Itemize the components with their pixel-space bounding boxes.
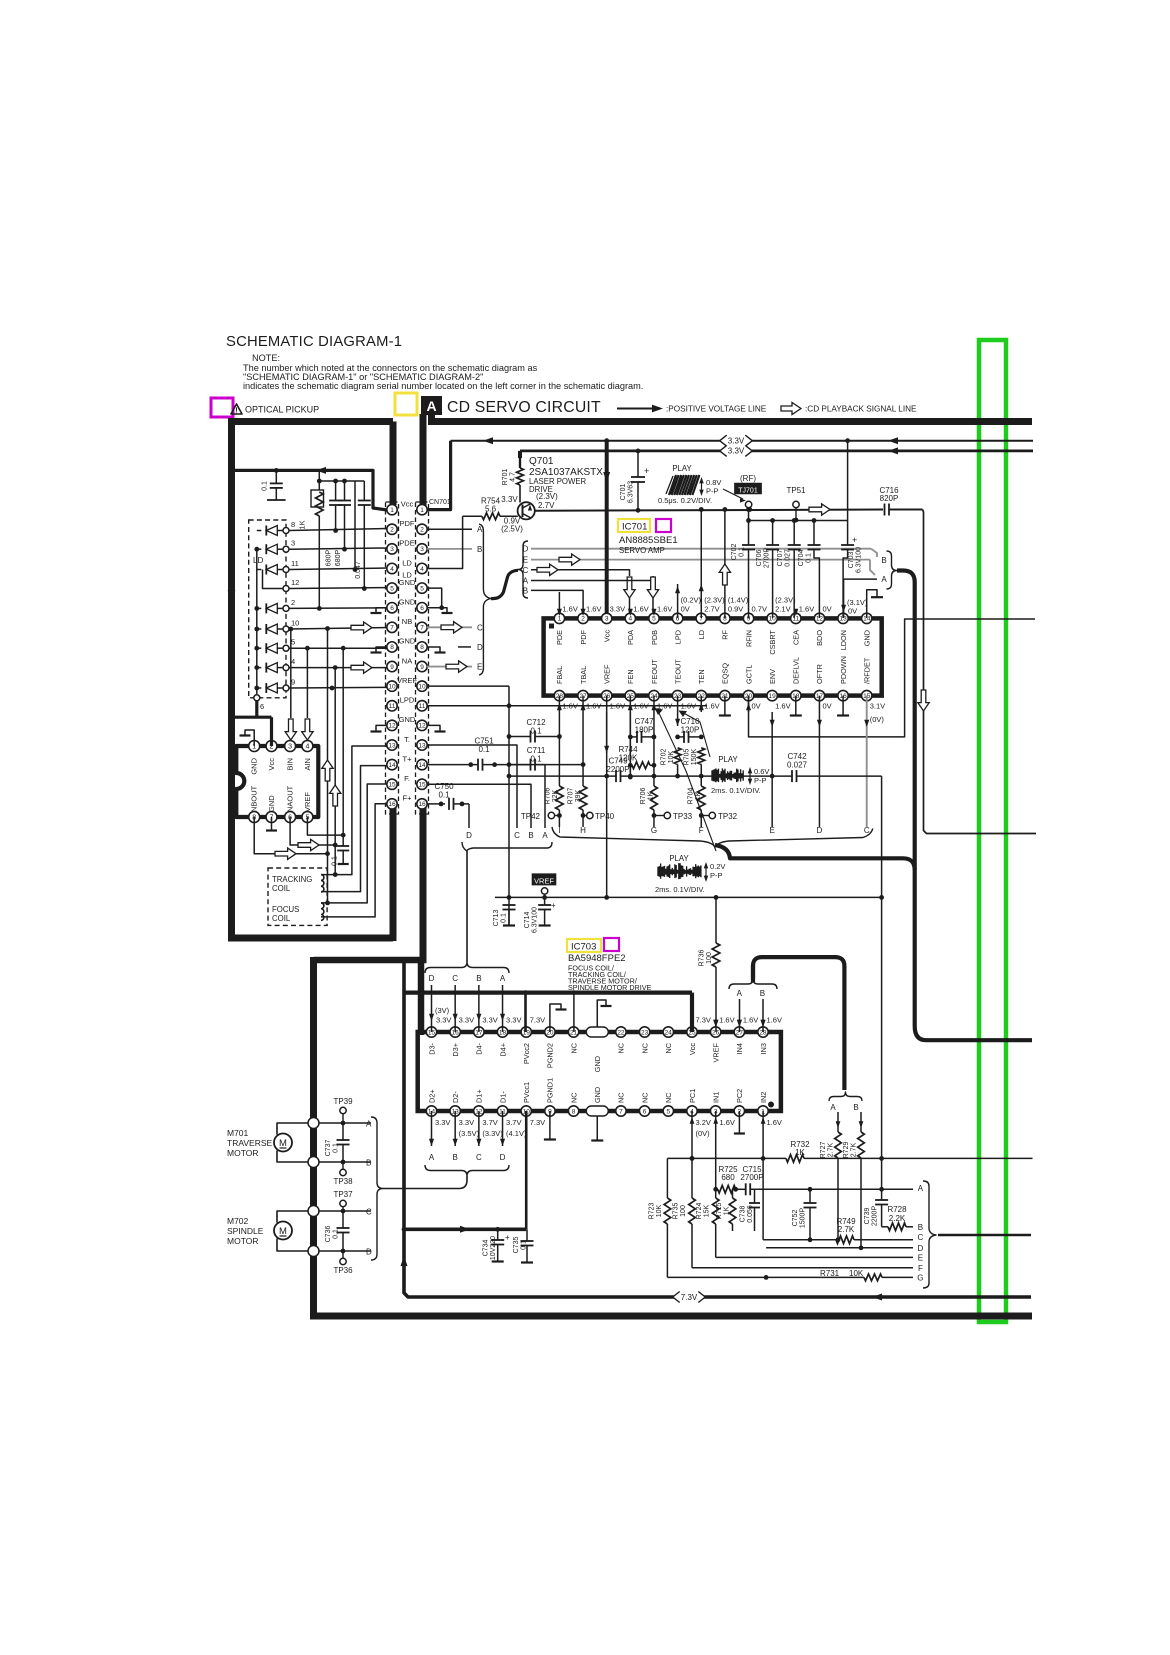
svg-text:M: M: [279, 1226, 287, 1237]
svg-text:1.6V: 1.6V: [633, 702, 648, 711]
svg-text:680P: 680P: [326, 550, 333, 567]
photodiode row 8: [257, 530, 262, 532]
svg-text:4.7: 4.7: [510, 472, 517, 482]
CN701 pin 15 right: [417, 779, 427, 789]
svg-text:3.3V: 3.3V: [436, 1016, 451, 1025]
wire pin3R to B gray: [427, 548, 472, 550]
svg-text:B: B: [476, 974, 481, 983]
photodiode anode bus: [256, 549, 258, 694]
CN701 pin 5 left: [387, 583, 397, 593]
svg-text:2200P: 2200P: [606, 765, 629, 774]
photodiode row 10: [257, 628, 262, 630]
svg-text:0.1: 0.1: [530, 755, 542, 764]
svg-text:(3.5V): (3.5V): [459, 1129, 480, 1138]
arrow into pin 20: [746, 703, 751, 710]
hollow arrow NA riser: [330, 785, 341, 806]
VREF wire pin26: [606, 712, 608, 897]
svg-text:A: A: [881, 575, 887, 584]
svg-text:3.3V: 3.3V: [482, 1016, 497, 1025]
IC703 pin 14: [426, 1106, 436, 1116]
IC701 pin 13: [838, 613, 848, 623]
svg-text:8: 8: [291, 520, 295, 529]
IC701 pin 8: [720, 613, 730, 623]
CN701 pin 16 left: [387, 799, 397, 809]
svg-text:15: 15: [388, 782, 396, 789]
M701 traverse motor: [274, 1134, 292, 1152]
svg-text:RF: RF: [721, 629, 730, 639]
svg-text:3.7V: 3.7V: [506, 1118, 521, 1127]
svg-text:5: 5: [390, 585, 394, 592]
CN701 pin 12 right: [417, 720, 427, 730]
GCTL wire pin20: [749, 619, 1035, 737]
gnd preamp pin7: [271, 817, 273, 830]
IC701 pin 2: [578, 613, 588, 623]
CN701 pin 9 left: [387, 661, 397, 671]
svg-text:B: B: [528, 831, 533, 840]
photodiode row 3: [257, 548, 262, 550]
IC703 pin1 mark: [768, 1102, 774, 1108]
3.3V tag upper: [720, 435, 753, 446]
wire F+ pin16: [321, 804, 387, 917]
IC701 pin 10: [767, 613, 777, 623]
IC703 pin 2: [734, 1106, 744, 1116]
capacitor C703: [847, 441, 849, 545]
IC701 pin 24: [649, 690, 659, 700]
wire E gray: [531, 559, 870, 561]
arrow on vcc wire: [316, 467, 326, 474]
svg-text:R728: R728: [887, 1205, 907, 1214]
svg-text:6.3V100: 6.3V100: [532, 907, 539, 933]
svg-text:R702: R702: [661, 749, 668, 766]
IC703 pin 3: [710, 1106, 720, 1116]
svg-text:indicates the schematic diagra: indicates the schematic diagram serial n…: [243, 381, 643, 391]
CN701 pin 16 right: [417, 799, 427, 809]
pad 11: [283, 567, 289, 573]
svg-text:C737: C737: [325, 1140, 332, 1157]
svg-text:2ms. 0.1V/DIV.: 2ms. 0.1V/DIV.: [711, 786, 761, 795]
OFTR wire pin17: [818, 696, 820, 827]
svg-text:PDE: PDE: [399, 539, 414, 548]
capacitor 0.1 vref: [337, 845, 349, 847]
wire to BIN: [290, 629, 292, 718]
arrow into pin 4: [628, 609, 633, 616]
svg-text:P-P: P-P: [710, 871, 723, 880]
hollow arrow down RF: [918, 690, 929, 711]
svg-text:D4+: D4+: [498, 1043, 507, 1057]
svg-text:D: D: [466, 831, 472, 840]
svg-text:F: F: [918, 1264, 923, 1273]
svg-text:AIN: AIN: [303, 758, 312, 771]
A section box: [421, 396, 442, 415]
R723: [666, 1158, 668, 1198]
R735: [689, 1198, 696, 1224]
gnd pin12R: [427, 725, 440, 731]
svg-text:6: 6: [643, 1108, 647, 1115]
svg-text:3: 3: [288, 743, 292, 750]
wire A row: [319, 1122, 371, 1124]
preamp IC body: [236, 746, 318, 817]
svg-text:A: A: [542, 831, 548, 840]
svg-text:0.1: 0.1: [806, 553, 813, 563]
svg-text:14: 14: [388, 762, 396, 769]
hollow arrow E cn: [446, 661, 467, 672]
CN701 pin 11 left: [387, 701, 397, 711]
svg-text:1.6V: 1.6V: [767, 1016, 782, 1025]
svg-text:680P: 680P: [335, 550, 342, 567]
capacitor C704: [813, 521, 815, 546]
svg-text:2.7V: 2.7V: [704, 605, 719, 614]
svg-text:D1+: D1+: [475, 1089, 484, 1103]
svg-text:0.2V: 0.2V: [710, 862, 725, 871]
arrow into pin 1: [557, 609, 562, 616]
CN701 pin 10 left: [387, 681, 397, 691]
svg-text:BDO: BDO: [815, 630, 824, 646]
arrow down vcc: [603, 472, 610, 482]
TBAL wire: [582, 712, 584, 786]
CN701 dashed outline left: [386, 502, 399, 814]
svg-text:SPINDLE: SPINDLE: [227, 1226, 264, 1236]
R715: [732, 1189, 734, 1198]
IC701 body: [544, 618, 882, 695]
wire D row: [319, 1250, 371, 1252]
CN701 pin 3 right: [417, 544, 427, 554]
tracking coil: [321, 875, 324, 892]
svg-text:1K: 1K: [298, 520, 307, 529]
svg-text:TP37: TP37: [333, 1190, 353, 1199]
IC701 pin 19: [767, 690, 777, 700]
pad 9: [283, 685, 289, 691]
svg-text:COIL: COIL: [272, 914, 291, 923]
arrow into pin 2: [581, 609, 586, 616]
pad 5: [283, 645, 289, 651]
svg-text:3.3V: 3.3V: [728, 447, 745, 456]
wire row12 to pin5: [289, 587, 387, 590]
arrow to pin 18: [502, 985, 504, 1032]
arrow up 404: [401, 1256, 408, 1266]
svg-text:8: 8: [572, 1108, 576, 1115]
svg-text:IC703: IC703: [571, 942, 596, 953]
svg-text:5: 5: [291, 638, 295, 647]
svg-text:C: C: [452, 974, 458, 983]
svg-text:6: 6: [390, 605, 394, 612]
capacitor 0.047: [363, 481, 365, 501]
IC701 pin 20: [743, 690, 753, 700]
photodiode row 5: [257, 647, 262, 649]
arrow to pin 16: [454, 985, 456, 1032]
svg-text:A: A: [500, 974, 506, 983]
LD wire pin7: [700, 510, 702, 619]
svg-text:PGND1: PGND1: [546, 1078, 555, 1103]
A line: [716, 1188, 718, 1190]
svg-text:R707: R707: [568, 788, 575, 805]
svg-text:0.1: 0.1: [530, 727, 542, 736]
svg-text:10K: 10K: [668, 750, 675, 763]
vcc wire inside pickup: [232, 470, 388, 510]
TJ701 black label: [734, 483, 762, 495]
7.3V tag: [673, 1292, 706, 1303]
svg-text:(4.1V): (4.1V): [506, 1129, 527, 1138]
svg-text:1.6V: 1.6V: [799, 605, 814, 614]
svg-text:C: C: [918, 1233, 924, 1242]
C747 line: [630, 736, 637, 738]
svg-text:(2.3V): (2.3V): [704, 596, 725, 605]
capacitor 680P a: [333, 479, 338, 484]
wire B to IC701 pin2: [531, 590, 583, 618]
C line: [763, 1239, 836, 1241]
IC701 pin 25: [625, 690, 635, 700]
svg-text:0.1: 0.1: [501, 913, 508, 923]
IC701 pin 23: [672, 690, 682, 700]
svg-text:1.6V: 1.6V: [586, 702, 601, 711]
PVcc1 wire: [525, 1111, 528, 1229]
svg-text:11: 11: [419, 703, 426, 710]
wire row2 to pin6: [289, 607, 387, 610]
IN2 wire: [762, 1111, 764, 1240]
svg-text:1.6V: 1.6V: [681, 702, 696, 711]
IC703 GND oval top: [586, 1027, 608, 1037]
svg-text:2: 2: [420, 527, 424, 534]
resistor 1K pickup: [318, 470, 320, 490]
svg-text:C: C: [514, 831, 520, 840]
svg-text:AN8885SBE1: AN8885SBE1: [619, 535, 678, 546]
svg-text:B: B: [881, 556, 886, 565]
svg-text:C738: C738: [740, 1206, 747, 1223]
cap riser row5: [342, 648, 344, 846]
B arrow pin28: [762, 999, 764, 1032]
IC703 pin 19: [521, 1027, 531, 1037]
svg-text:NC: NC: [664, 1043, 673, 1054]
gnd IC701 pin 16: [842, 696, 844, 715]
svg-text:0.1: 0.1: [333, 1229, 340, 1239]
svg-text:OPTICAL PICKUP: OPTICAL PICKUP: [245, 405, 319, 415]
TP33: [654, 815, 664, 817]
hollow arrow rail: [809, 504, 830, 515]
svg-text:23: 23: [641, 1029, 649, 1036]
noise waveform 0.6V: [712, 768, 743, 782]
wire pin12 down: [478, 1111, 480, 1146]
gnd PGND1: [549, 1111, 551, 1139]
letter D cn: [458, 646, 471, 648]
photodiode row 4: [257, 667, 262, 669]
gnd pin8R: [427, 647, 440, 652]
hollow arrow C cn: [441, 622, 462, 633]
svg-text:PDF: PDF: [400, 519, 415, 528]
hollow arrow NB: [351, 622, 372, 633]
IC703 pin 10: [521, 1106, 531, 1116]
TJ701 test point: [745, 501, 751, 507]
svg-text:15K: 15K: [703, 1204, 710, 1217]
svg-text:PVcc2: PVcc2: [522, 1043, 531, 1064]
arrow left upper 3.3V: [888, 437, 898, 444]
svg-text:1K: 1K: [723, 1206, 730, 1215]
svg-text:3.3V: 3.3V: [728, 437, 745, 446]
gnd IC701 pin 18: [795, 696, 797, 715]
IC701 pin 16: [838, 690, 848, 700]
svg-text:TP33: TP33: [673, 812, 693, 821]
IC703 pin 7: [616, 1106, 626, 1116]
svg-text:100: 100: [680, 1205, 687, 1217]
D line: [766, 1247, 913, 1249]
svg-text:1.6V: 1.6V: [767, 1118, 782, 1127]
legend positive voltage line: [617, 408, 655, 410]
VREF black label: [532, 873, 557, 885]
svg-text:TP32: TP32: [718, 812, 738, 821]
svg-text:DEFLVL: DEFLVL: [792, 657, 801, 684]
RFDET wire pin15: [866, 696, 868, 827]
wire top caps: [319, 480, 364, 482]
brace right bundle: [923, 1181, 936, 1288]
ABCD under brace: [425, 1165, 509, 1176]
svg-text:CSBRT: CSBRT: [768, 629, 777, 654]
svg-text:+: +: [505, 1233, 510, 1242]
pad 6 bottom: [254, 695, 260, 701]
R707 39K: [579, 786, 587, 810]
svg-text:4: 4: [629, 616, 633, 623]
R736: [715, 897, 717, 943]
svg-text:C714: C714: [524, 912, 531, 929]
svg-text:C701: C701: [620, 484, 627, 501]
svg-text:D2-: D2-: [451, 1091, 460, 1103]
svg-text:(3V): (3V): [435, 1006, 450, 1015]
svg-text:FBAL: FBAL: [555, 666, 564, 684]
R704 1K: [697, 786, 705, 810]
svg-text:12: 12: [388, 723, 396, 730]
svg-text:3.3V: 3.3V: [459, 1118, 474, 1127]
arrow to pin 17: [478, 985, 480, 1032]
svg-text:0.056: 0.056: [747, 1205, 754, 1223]
svg-text:9: 9: [390, 664, 394, 671]
gnd pin8L: [376, 647, 387, 652]
brace cn small: [491, 570, 518, 598]
svg-text:2.7K: 2.7K: [827, 1142, 834, 1157]
svg-text:C: C: [523, 566, 529, 575]
svg-text:PVcc1: PVcc1: [522, 1082, 531, 1103]
svg-text:+: +: [551, 901, 556, 910]
feed to pin25: [690, 993, 694, 1032]
wire A to IC701 pin5: [531, 576, 653, 581]
photodiode row 9: [257, 687, 262, 689]
wire T- pin13: [321, 746, 387, 875]
svg-text:2: 2: [390, 527, 394, 534]
updown 0.6V: [749, 770, 751, 782]
svg-text:RFIN: RFIN: [744, 630, 753, 647]
capacitor 680P b: [342, 479, 347, 484]
IC703 pin 12: [474, 1106, 484, 1116]
CN701 pin 14 right: [417, 759, 427, 769]
feed to pin19: [524, 993, 527, 1032]
svg-text:TRACKING: TRACKING: [272, 875, 312, 884]
svg-text:B: B: [760, 989, 765, 998]
svg-text:C707: C707: [777, 550, 784, 567]
G line: [667, 1276, 864, 1278]
hollow arrow NB riser: [322, 760, 333, 781]
svg-text:C734: C734: [483, 1240, 490, 1257]
svg-text:7: 7: [619, 1108, 623, 1115]
svg-text:R706: R706: [640, 788, 647, 805]
IN1 wire: [715, 1111, 717, 1198]
svg-text:R735: R735: [673, 1203, 680, 1220]
gnd preamp pin1: [245, 730, 254, 746]
svg-text:3: 3: [390, 546, 394, 553]
svg-text:NOTE:: NOTE:: [252, 353, 280, 363]
svg-text:TP51: TP51: [786, 486, 806, 495]
vcc feed to CN701: [427, 441, 451, 510]
power line 1229: [404, 1228, 526, 1232]
terminal B: [308, 1157, 319, 1168]
svg-text:1: 1: [390, 507, 394, 514]
svg-text:1.6V: 1.6V: [775, 702, 790, 711]
svg-text:0.9V: 0.9V: [728, 605, 743, 614]
svg-text:NC: NC: [617, 1092, 626, 1103]
wire pin9R to E: [427, 666, 472, 668]
capacitor C706: [772, 521, 774, 546]
wire pin13 down: [454, 1111, 456, 1146]
capacitor 0.1 pickup: [275, 470, 277, 483]
svg-text:PDE: PDE: [555, 630, 564, 645]
svg-text:6: 6: [420, 605, 424, 612]
wire B row: [319, 1161, 371, 1163]
svg-text:PC1: PC1: [688, 1089, 697, 1103]
svg-text:ENV: ENV: [768, 669, 777, 684]
svg-text:F: F: [699, 826, 704, 835]
svg-text:TP40: TP40: [595, 812, 615, 821]
arrow left 7.3V: [872, 1294, 882, 1301]
A wire right: [844, 578, 877, 580]
svg-text:LPD: LPD: [400, 696, 415, 705]
svg-text:820P: 820P: [880, 494, 899, 503]
svg-text:GND: GND: [267, 795, 276, 812]
CN701 pin 6 right: [417, 603, 427, 613]
FEN wire pin25: [629, 712, 631, 777]
capacitor C701: [636, 449, 641, 454]
svg-text:C703: C703: [848, 552, 855, 569]
svg-text:PDF: PDF: [579, 629, 588, 644]
R724: [712, 1198, 719, 1224]
svg-text:TBAL: TBAL: [579, 666, 588, 684]
svg-text:VREF: VREF: [534, 877, 554, 886]
gnd oval top stem: [597, 1000, 606, 1027]
svg-text:!: !: [235, 406, 238, 415]
IC701 pin 18: [791, 690, 801, 700]
svg-text:(2.5V): (2.5V): [501, 525, 523, 534]
CN701 pin 4 right: [417, 563, 427, 573]
hollow arrow up pin8: [719, 564, 730, 585]
IC701 pin 1: [554, 613, 564, 623]
svg-text:CN701: CN701: [429, 499, 451, 506]
wire A net pin13: [843, 579, 845, 618]
brace right AB: [887, 551, 898, 589]
svg-text:C: C: [366, 1208, 372, 1217]
CN701 pin 8 left: [387, 642, 397, 652]
svg-text:PGND2: PGND2: [546, 1043, 555, 1068]
svg-text:LD: LD: [402, 558, 412, 567]
F line: [692, 1267, 913, 1269]
hollow arrow AIN: [302, 719, 313, 740]
svg-text:A: A: [830, 1103, 836, 1112]
IC701 magenta box: [656, 519, 671, 532]
IC701 pin 17: [814, 690, 824, 700]
noise waveform 0.2V: [658, 863, 701, 879]
arrow left vcc feed: [483, 437, 493, 444]
svg-text:GND: GND: [399, 715, 416, 724]
svg-text:(2.3V): (2.3V): [536, 492, 558, 501]
wire F- pin15: [321, 784, 387, 903]
TP36: [340, 1258, 346, 1264]
IC703 body: [418, 1032, 781, 1111]
svg-text:TEOUT: TEOUT: [673, 659, 682, 684]
IC703 pin 6: [639, 1106, 649, 1116]
svg-text:1.6V: 1.6V: [657, 605, 672, 614]
